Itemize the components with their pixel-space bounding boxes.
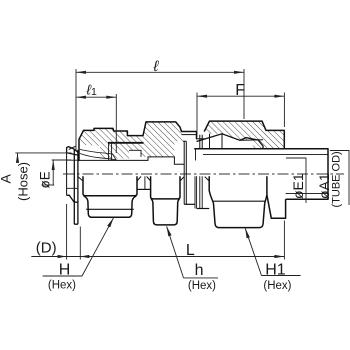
svg-text:A: A: [0, 174, 14, 184]
svg-text:(Hex): (Hex): [263, 280, 291, 292]
svg-text:(Hex): (Hex): [188, 280, 216, 292]
svg-text:(Hex): (Hex): [48, 280, 76, 292]
svg-text:ℓ1: ℓ1: [86, 82, 98, 99]
svg-text:øE1: øE1: [290, 173, 306, 199]
svg-text:(Hose): (Hose): [16, 162, 31, 201]
svg-text:(D): (D): [36, 240, 57, 257]
svg-text:L: L: [186, 242, 195, 259]
svg-text:H1: H1: [265, 261, 286, 278]
svg-text:F: F: [235, 82, 245, 99]
svg-text:øE: øE: [38, 171, 53, 188]
svg-text:(TUBE OD): (TUBE OD): [331, 151, 343, 207]
svg-text:H: H: [59, 262, 71, 279]
svg-text:h: h: [195, 262, 204, 279]
